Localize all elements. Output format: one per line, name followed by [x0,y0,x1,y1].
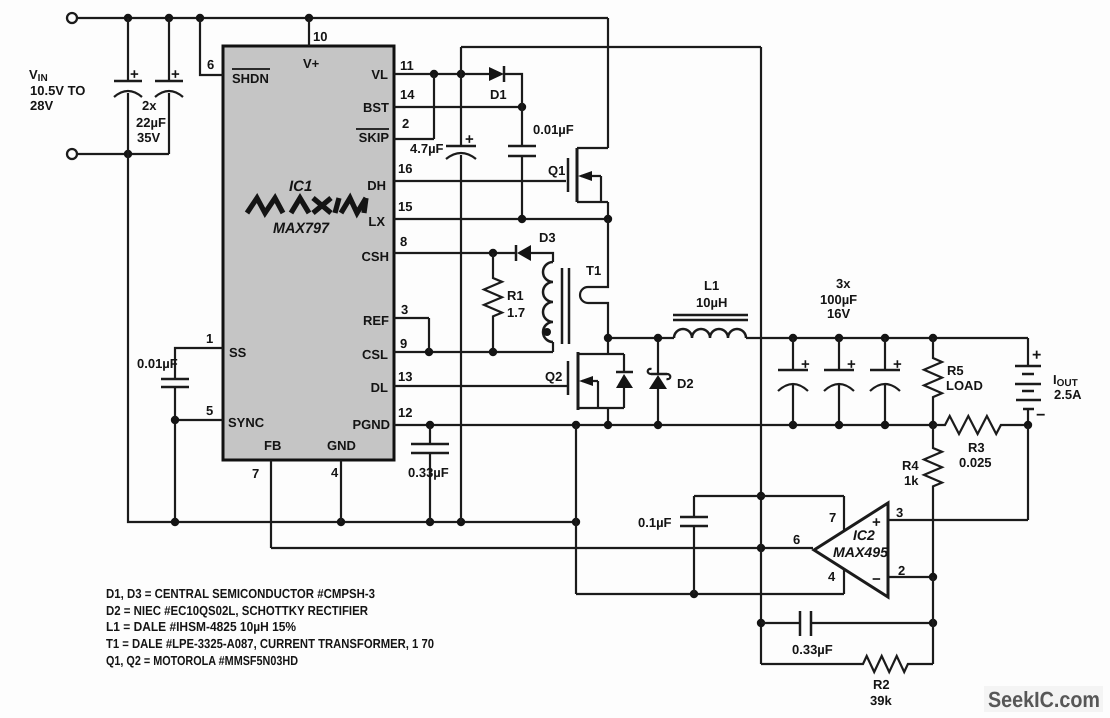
capacitor 0.01uF BST [508,107,536,219]
svg-text:13: 13 [398,369,412,384]
wire DL pin13 [394,385,567,387]
svg-text:FB: FB [264,438,281,453]
label 2x 22uF 35V [136,98,166,145]
wire VL bus vertical [757,47,765,664]
transformer T1 secondary [580,219,608,338]
svg-text:0.33µF: 0.33µF [792,642,833,657]
svg-text:15: 15 [398,199,412,214]
svg-text:R4: R4 [902,458,919,473]
svg-text:Q2: Q2 [545,369,562,384]
wire SYNC pin5 [171,416,223,424]
wire VL top link [461,46,761,48]
terminal VIN+ [67,13,77,23]
svg-text:10µH: 10µH [696,295,727,310]
wire FB line to op-amp [271,544,813,552]
transistor Q2 [568,338,624,425]
svg-text:2: 2 [402,116,409,131]
capacitor output 100uF #3 [870,338,902,425]
svg-text:T1 = DALE #LPE-3325-A087, CURR: T1 = DALE #LPE-3325-A087, CURRENT TRANSF… [106,636,434,651]
svg-text:+: + [872,514,881,531]
svg-text:CSH: CSH [362,249,389,264]
label R2 39k [870,677,892,708]
label 4.7uF [410,141,444,156]
label 0.33uF PGND [408,465,449,480]
wire LX output node [604,334,674,342]
resistor R5 LOAD [924,338,942,425]
svg-text:28V: 28V [30,98,53,113]
svg-text:−: − [872,571,881,588]
svg-text:7: 7 [829,510,836,525]
svg-text:0.025: 0.025 [959,455,992,470]
svg-text:LX: LX [368,214,385,229]
svg-text:SKIP: SKIP [359,130,390,145]
capacitor 0.01uF at SS [161,379,189,522]
label R1 1.7 [507,288,525,320]
svg-text:3x: 3x [836,276,851,291]
svg-text:−: − [1036,407,1045,424]
battery IOUT load [1015,347,1045,425]
svg-text:9: 9 [400,336,407,351]
label Q1 [548,163,565,178]
op-amp U2 IC2 MAX495 [814,503,888,597]
label D3 [539,230,556,245]
svg-text:CSL: CSL [362,347,388,362]
wire IC2 pin4 [843,569,845,594]
inductor L1 [673,315,748,338]
svg-text:7: 7 [252,466,259,481]
svg-text:+: + [1032,347,1041,364]
svg-text:SeekIC.com: SeekIC.com [988,687,1100,712]
svg-text:Q1, Q2 = MOTOROLA #MMSF5N03HD: Q1, Q2 = MOTOROLA #MMSF5N03HD [106,653,298,668]
svg-text:MAX495: MAX495 [833,544,888,560]
label SeekIC.com watermark [984,686,1103,712]
capacitor 0.33uF at PGND [411,425,449,522]
svg-text:+: + [801,356,810,373]
resistor R4 1k [924,425,942,577]
svg-text:+: + [130,66,139,83]
svg-text:SHDN: SHDN [232,71,269,86]
svg-text:11: 11 [400,58,414,73]
svg-text:L1 = DALE #IHSM-4825 10µH 15%: L1 = DALE #IHSM-4825 10µH 15% [106,619,296,634]
svg-text:2: 2 [898,563,905,578]
wire PGND pin12 rail [394,421,937,429]
capacitor 0.33uF feedback [761,611,937,636]
wire op-amp supply box top [694,495,844,497]
svg-text:3: 3 [401,302,408,317]
svg-text:R2: R2 [873,677,890,692]
capacitor 0.1uF [680,496,708,594]
svg-text:Q1: Q1 [548,163,565,178]
svg-text:0.1µF: 0.1µF [638,515,672,530]
label R4 1k [902,458,919,488]
svg-text:GND: GND [327,438,356,453]
transformer T1 core [562,268,569,344]
label 0.01uF BST [533,122,574,137]
svg-text:L1: L1 [704,278,719,293]
svg-text:100µF: 100µF [820,292,857,307]
svg-text:+: + [465,131,474,148]
svg-text:MAX797: MAX797 [273,220,330,237]
svg-text:DH: DH [367,178,386,193]
wire IC2 pin7 [843,496,845,531]
svg-text:D3: D3 [539,230,556,245]
label R3 0.025 [959,440,992,470]
svg-text:SS: SS [229,345,247,360]
IC2 pin numbers [793,505,905,584]
svg-text:10.5V TO: 10.5V TO [30,83,85,98]
svg-text:39k: 39k [870,693,892,708]
svg-text:5: 5 [206,403,213,418]
transistor Q1 [568,18,608,219]
svg-text:16: 16 [398,161,412,176]
resistor R1 [484,253,502,352]
svg-text:1: 1 [206,331,213,346]
svg-text:D1, D3 = CENTRAL SEMICONDUCTOR: D1, D3 = CENTRAL SEMICONDUCTOR #CMPSH-3 [106,586,375,601]
svg-text:1.7: 1.7 [507,305,525,320]
label IOUT 2.5A [1053,372,1082,402]
op-amp U1 IC1 MAX797 body [223,46,394,460]
wire GND pin4 drop [340,460,342,522]
svg-text:16V: 16V [827,306,850,321]
svg-text:4.7µF: 4.7µF [410,141,444,156]
diode Q2 body [616,354,633,408]
label D1 [490,87,507,102]
wire IC2 pin2 [888,573,937,581]
svg-text:D2: D2 [677,376,694,391]
svg-text:4: 4 [331,465,339,480]
label parts list [106,586,434,668]
capacitor input C 22uF #2 [155,18,183,154]
IC1 pin names [228,56,390,453]
label 3x 100uF 16V [820,276,857,321]
svg-text:BST: BST [363,100,389,115]
svg-text:R5: R5 [947,363,964,378]
svg-text:R1: R1 [507,288,524,303]
wire SHDN pin6 [200,18,223,75]
svg-text:PGND: PGND [352,417,390,432]
svg-text:R3: R3 [968,440,985,455]
diode D2 [648,338,671,425]
svg-text:1k: 1k [904,473,919,488]
svg-text:IC1: IC1 [289,178,312,195]
label 0.33uF feedback [792,642,833,657]
svg-text:2x: 2x [142,98,157,113]
svg-text:V+: V+ [303,56,320,71]
wire CSH pin8 [394,249,516,257]
label L1 10uH [696,278,727,310]
resistor R2 39k [761,577,933,672]
wire top VIN rail [77,17,608,19]
node T1 phase dot [543,328,551,336]
svg-text:D1: D1 [490,87,507,102]
terminal VIN- [67,149,77,159]
wire SKIP pin2 to VL [394,74,434,139]
diode D1 [489,66,522,107]
svg-text:+: + [893,356,902,373]
label R5 LOAD [946,363,983,393]
wire left ground rail [128,154,580,526]
svg-text:REF: REF [363,313,389,328]
node top rail junctions [124,14,313,22]
svg-text:6: 6 [793,532,800,547]
wire REF pin3 [394,318,429,352]
svg-text:22µF: 22µF [136,115,166,130]
wire output rail [746,334,1028,366]
label VIN 10.5V TO 28V [29,67,85,113]
wire SS pin1 [175,348,223,379]
capacitor 4.7uF with VL bus [446,47,476,522]
wire IC2 pin3 [888,425,1028,520]
label D2 [677,376,694,391]
IC1 pin numbers [206,29,415,481]
svg-text:0.01µF: 0.01µF [533,122,574,137]
capacitor input C 22uF #1 [114,18,142,154]
svg-text:VL: VL [371,67,388,82]
svg-text:D2 = NIEC #EC10QS02L, SCHOTTKY: D2 = NIEC #EC10QS02L, SCHOTTKY RECTIFIER [106,603,369,618]
wire bottom VIN rail [77,150,169,158]
capacitor output 100uF #1 [778,338,810,425]
svg-text:+: + [847,356,856,373]
svg-text:10: 10 [313,29,327,44]
svg-text:6: 6 [207,57,214,72]
wire CSL pin9 [394,348,553,356]
resistor R3 0.025 [933,416,1032,434]
wire V+ pin10 [308,18,310,46]
svg-text:DL: DL [371,380,388,395]
svg-text:+: + [171,66,180,83]
svg-text:12: 12 [398,405,412,420]
label T1 [586,263,601,278]
svg-text:LOAD: LOAD [946,378,983,393]
svg-text:0.33µF: 0.33µF [408,465,449,480]
svg-text:0.01µF: 0.01µF [137,356,178,371]
capacitor output 100uF #2 [824,338,856,425]
wire BST pin14 [394,103,526,111]
diode D3 [516,245,553,262]
svg-text:SYNC: SYNC [228,415,265,430]
wire FB pin7 drop [270,460,272,548]
svg-text:14: 14 [400,87,415,102]
transformer T1 primary [543,262,553,352]
label 0.01uF SS [137,356,178,371]
wire VL pin11 [394,70,490,78]
svg-text:T1: T1 [586,263,601,278]
label Q2 [545,369,562,384]
svg-text:3: 3 [896,505,903,520]
svg-text:8: 8 [400,234,407,249]
wire op-amp supply box bottom [576,425,844,598]
svg-text:4: 4 [828,569,836,584]
wire DH pin16 [394,180,566,182]
wire LX pin15 [394,215,612,223]
label 0.1uF [638,515,672,530]
svg-text:2.5A: 2.5A [1054,387,1082,402]
svg-text:35V: 35V [137,130,160,145]
